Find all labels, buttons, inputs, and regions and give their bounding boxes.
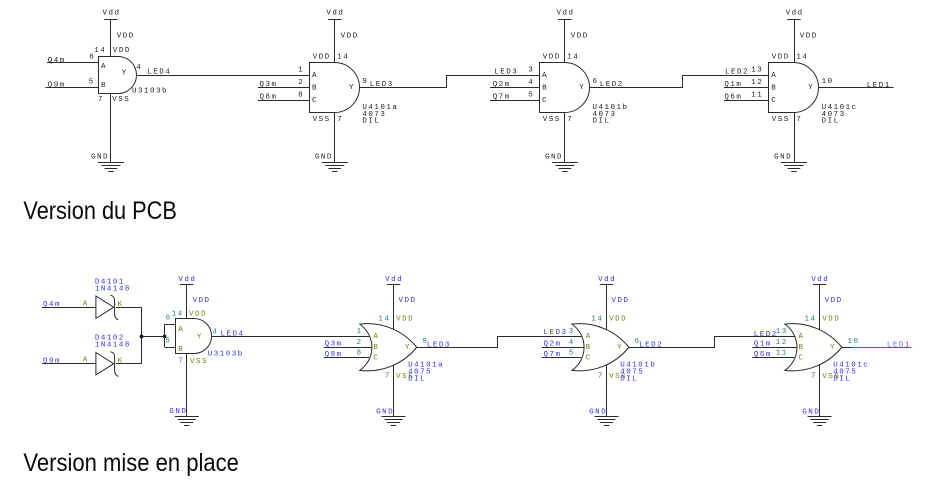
- svg-text:A: A: [373, 333, 379, 341]
- svg-text:Q8m: Q8m: [260, 94, 278, 102]
- svg-text:A: A: [83, 300, 89, 308]
- svg-text:Version du PCB: Version du PCB: [23, 197, 177, 225]
- svg-text:7: 7: [337, 116, 343, 124]
- AND gate U3103b (top) body: [99, 57, 137, 94]
- svg-text:13: 13: [751, 67, 763, 75]
- svg-text:B: B: [586, 344, 592, 352]
- wire Vdd to U3103b pin 14 / VSS to ground (bottom, vertical): [186, 284, 188, 416]
- svg-text:Q4m: Q4m: [43, 301, 61, 309]
- svg-text:6: 6: [166, 315, 172, 323]
- svg-text:14: 14: [94, 47, 106, 55]
- wire input Q7m to U4101b pin 5 (bottom): [542, 357, 581, 359]
- svg-text:5: 5: [569, 349, 575, 357]
- svg-text:LED2: LED2: [639, 342, 663, 350]
- svg-text:Q2m: Q2m: [544, 340, 562, 348]
- svg-text:Q1m: Q1m: [724, 81, 742, 89]
- svg-text:GND: GND: [802, 408, 820, 416]
- svg-text:8: 8: [357, 349, 363, 357]
- svg-text:C: C: [771, 97, 777, 105]
- svg-text:U3103b: U3103b: [208, 351, 244, 359]
- svg-text:C: C: [799, 354, 805, 362]
- svg-text:Q9m: Q9m: [48, 82, 66, 90]
- diode D4102 symbol: [96, 352, 118, 377]
- svg-text:LED1: LED1: [867, 82, 891, 90]
- wire Vdd to U4101b pin 14 / VSS to ground (bottom, vertical): [606, 284, 608, 416]
- AND gate U4101a (top) body: [310, 63, 360, 113]
- ground symbol of U4101c (bottom): [808, 417, 832, 426]
- svg-text:VSS: VSS: [190, 358, 208, 366]
- svg-text:K: K: [118, 358, 124, 366]
- wire net LED1 (highlighted magenta): [853, 347, 912, 349]
- svg-text:Vdd: Vdd: [598, 276, 616, 284]
- svg-text:14: 14: [337, 54, 349, 62]
- svg-text:VDD: VDD: [189, 311, 207, 319]
- wire input Q4m to D4101 anode: [42, 307, 96, 309]
- svg-text:VDD: VDD: [612, 297, 630, 305]
- ground symbol of U3103b (top): [98, 163, 124, 172]
- svg-text:Y: Y: [808, 84, 814, 92]
- svg-text:2: 2: [357, 339, 363, 347]
- svg-text:LED2: LED2: [754, 331, 778, 339]
- power Vdd symbol of U4101a (top): [326, 9, 344, 19]
- svg-text:10: 10: [848, 338, 860, 346]
- svg-text:Vdd: Vdd: [326, 9, 344, 17]
- svg-text:LED4: LED4: [147, 68, 171, 76]
- svg-text:A: A: [586, 333, 592, 341]
- svg-text:B: B: [178, 346, 184, 354]
- svg-text:U3103b: U3103b: [132, 88, 168, 96]
- svg-text:5: 5: [89, 78, 95, 86]
- svg-text:DIL: DIL: [593, 118, 611, 126]
- wire input Q9m to U3103b pin 5: [46, 87, 99, 89]
- wire junction to U3103b inputs: [142, 336, 165, 338]
- wire tee bar connecting U3103b pins 6 and 5: [164, 324, 166, 347]
- svg-text:1: 1: [357, 328, 363, 336]
- wire input Q3m to U4101a pin 2: [258, 87, 309, 89]
- ground symbol of U4101a (top): [322, 163, 348, 172]
- ground symbol of U4101a (bottom): [382, 417, 406, 426]
- svg-text:Q6m: Q6m: [724, 94, 742, 102]
- svg-text:Q1m: Q1m: [754, 340, 772, 348]
- svg-text:2: 2: [298, 79, 304, 87]
- svg-text:LED1: LED1: [887, 341, 911, 349]
- part reference U4101c 4075 DIL (bottom): [833, 361, 869, 383]
- svg-text:VDD: VDD: [822, 316, 840, 324]
- svg-text:4: 4: [212, 328, 218, 336]
- wire U3103b output pin 4 to U4101a pin 1, net LED4 (bottom): [211, 336, 369, 338]
- svg-text:3: 3: [569, 328, 575, 336]
- svg-text:1: 1: [298, 67, 304, 75]
- svg-text:VDD: VDD: [609, 316, 627, 324]
- svg-text:VSS: VSS: [543, 116, 561, 124]
- wire input Q8m to U4101a pin 8 (bottom): [324, 357, 369, 359]
- wire joining diode cathodes (vertical): [141, 307, 143, 364]
- wire stub to U3103b pin 6 (A): [165, 324, 175, 326]
- power Vdd symbol of U3103b (bottom): [178, 276, 196, 285]
- svg-text:Q3m: Q3m: [325, 340, 343, 348]
- svg-text:VSS: VSS: [822, 373, 840, 381]
- svg-text:A: A: [799, 333, 805, 341]
- wire U4101b pin 6 to U4101c pin 13, net LED2 (stepped): [590, 76, 769, 88]
- wire input Q1m to U4101c pin 12 (bottom): [752, 347, 796, 349]
- svg-text:C: C: [542, 97, 548, 105]
- svg-text:LED4: LED4: [221, 331, 245, 339]
- svg-text:A: A: [101, 63, 107, 71]
- svg-text:GND: GND: [376, 408, 394, 416]
- svg-text:VSS: VSS: [609, 373, 627, 381]
- svg-text:Y: Y: [617, 344, 623, 352]
- ground symbol of U4101b (bottom): [595, 417, 619, 426]
- wire input Q7m to U4101b pin 5: [490, 100, 539, 102]
- svg-text:B: B: [373, 344, 379, 352]
- svg-text:Y: Y: [579, 84, 585, 92]
- svg-text:GND: GND: [774, 154, 792, 162]
- svg-text:VDD: VDD: [800, 32, 818, 40]
- svg-text:14: 14: [378, 316, 390, 324]
- OR gate U4101a (bottom) body: [360, 324, 417, 371]
- svg-text:1N4148: 1N4148: [95, 286, 131, 294]
- junction dot at diode cathode bus: [140, 335, 144, 339]
- svg-text:7: 7: [178, 357, 184, 365]
- svg-text:B: B: [101, 82, 107, 90]
- svg-text:7: 7: [98, 96, 104, 104]
- svg-text:B: B: [542, 85, 548, 93]
- OR gate U4101b (bottom) body: [572, 324, 629, 371]
- svg-text:VDD: VDD: [193, 297, 211, 305]
- svg-text:6: 6: [89, 54, 95, 62]
- part reference U4101b 4075 DIL (bottom): [620, 361, 656, 383]
- wire U4101a pin 9 to U4101b pin 3, net LED3 (bottom, stepped): [417, 337, 582, 348]
- svg-text:7: 7: [385, 373, 391, 381]
- svg-text:8: 8: [298, 92, 304, 100]
- svg-text:7: 7: [598, 373, 604, 381]
- wire input Q2m to U4101b pin 4: [490, 87, 539, 89]
- svg-text:GND: GND: [545, 154, 563, 162]
- svg-text:4: 4: [569, 339, 575, 347]
- power Vdd symbol of U4101b (top): [557, 9, 575, 19]
- svg-text:4: 4: [528, 79, 534, 87]
- power Vdd symbol of U4101c (top): [786, 9, 804, 19]
- wire D4102 cathode to junction: [116, 363, 142, 365]
- wire Vdd to U4101c pin 14 / VSS to ground (vertical): [794, 19, 796, 162]
- svg-text:A: A: [542, 72, 548, 80]
- svg-text:9: 9: [362, 78, 368, 86]
- wire input Q3m to U4101a pin 2 (bottom): [324, 347, 372, 349]
- svg-text:GND: GND: [315, 154, 333, 162]
- svg-text:14: 14: [567, 54, 579, 62]
- power Vdd symbol of U4101c (bottom): [811, 276, 829, 285]
- svg-text:LED3: LED3: [494, 69, 518, 77]
- svg-text:A: A: [83, 357, 89, 365]
- svg-text:Q4m: Q4m: [48, 57, 66, 65]
- svg-text:11: 11: [751, 92, 763, 100]
- ground symbol of U3103b (bottom): [175, 417, 199, 426]
- svg-text:Vdd: Vdd: [811, 276, 829, 284]
- svg-text:11: 11: [776, 349, 788, 357]
- svg-text:GND: GND: [169, 408, 187, 416]
- svg-text:Version mise en place: Version mise en place: [23, 449, 239, 477]
- AND gate U4101b (top) body: [540, 63, 590, 113]
- svg-text:10: 10: [822, 78, 834, 86]
- svg-text:B: B: [771, 85, 777, 93]
- svg-text:7: 7: [811, 373, 817, 381]
- power Vdd symbol of U4101b (bottom): [598, 276, 616, 285]
- AND gate U4101c (top) body: [769, 63, 819, 113]
- wire U4101a pin 9 to U4101b pin 3, net LED3 (stepped): [360, 76, 540, 88]
- svg-text:Q9m: Q9m: [43, 358, 61, 366]
- wire input Q6m to U4101c pin 11: [724, 100, 768, 102]
- svg-text:Y: Y: [830, 344, 836, 352]
- wire U3103b output pin 4 to U4101a pin 1, net LED4: [136, 75, 309, 77]
- junction dot at U3103b input tee: [163, 335, 167, 339]
- svg-text:Q7m: Q7m: [544, 351, 562, 359]
- svg-text:A: A: [312, 72, 318, 80]
- wire Vdd to U4101a pin 14 / VSS to ground (bottom, vertical): [393, 284, 395, 416]
- svg-text:12: 12: [751, 79, 763, 87]
- svg-text:B: B: [312, 85, 318, 93]
- svg-text:LED3: LED3: [427, 342, 451, 350]
- wire Vdd to U4101c pin 14 / VSS to ground (bottom, vertical): [819, 284, 821, 416]
- AND gate U3103b (bottom) body: [176, 319, 212, 354]
- svg-text:Vdd: Vdd: [103, 9, 121, 17]
- ground symbol of U4101c (top): [781, 163, 807, 172]
- wire input Q2m to U4101b pin 4 (bottom): [542, 347, 584, 349]
- svg-text:VDD: VDD: [341, 32, 359, 40]
- part reference U4101a 4073 DIL (top): [362, 104, 398, 126]
- svg-text:Y: Y: [197, 334, 203, 342]
- svg-text:4: 4: [136, 64, 142, 72]
- wire D4101 cathode to junction: [116, 307, 142, 309]
- wire input Q6m to U4101c pin 11 (bottom): [752, 357, 794, 359]
- svg-text:VSS: VSS: [112, 96, 130, 104]
- wire U4101b pin 6 to U4101c pin 13, net LED2 (bottom, stepped): [629, 337, 795, 348]
- svg-text:LED2: LED2: [725, 69, 749, 77]
- svg-text:VDD: VDD: [543, 54, 561, 62]
- svg-text:7: 7: [567, 116, 573, 124]
- wire U4101c pin 10 output stub (black): [842, 347, 853, 349]
- svg-text:VDD: VDD: [313, 54, 331, 62]
- svg-text:12: 12: [776, 339, 788, 347]
- svg-text:C: C: [586, 354, 592, 362]
- power Vdd symbol of U3103b (top): [103, 9, 121, 19]
- svg-text:DIL: DIL: [362, 118, 380, 126]
- svg-text:VSS: VSS: [772, 116, 790, 124]
- svg-text:Q7m: Q7m: [493, 94, 511, 102]
- svg-text:A: A: [178, 326, 184, 334]
- svg-text:A: A: [771, 72, 777, 80]
- svg-text:14: 14: [591, 316, 603, 324]
- svg-text:14: 14: [172, 311, 184, 319]
- svg-text:Y: Y: [405, 344, 411, 352]
- svg-text:14: 14: [805, 316, 817, 324]
- svg-text:Vdd: Vdd: [557, 9, 575, 17]
- svg-text:Vdd: Vdd: [178, 276, 196, 284]
- power Vdd symbol of U4101a (bottom): [385, 276, 403, 285]
- part reference U4101b 4073 DIL (top): [593, 104, 629, 126]
- wire input Q9m to D4102 anode: [42, 363, 96, 365]
- wire U4101c pin 10 output, net LED1: [818, 87, 893, 89]
- svg-text:C: C: [312, 97, 318, 105]
- svg-text:VDD: VDD: [396, 316, 414, 324]
- svg-text:B: B: [799, 344, 805, 352]
- svg-text:5: 5: [528, 92, 534, 100]
- wire input Q8m to U4101a pin 8: [258, 100, 309, 102]
- OR gate U4101c (bottom) body: [785, 324, 842, 371]
- wire Vdd to U4101b pin 14 / VSS to ground (vertical): [564, 19, 566, 162]
- svg-text:VDD: VDD: [825, 297, 843, 305]
- wire stub to U3103b pin 5 (B): [165, 347, 175, 349]
- wire Vdd to U4101a pin 14 / VSS to ground (vertical): [334, 19, 336, 162]
- svg-text:Q6m: Q6m: [754, 351, 772, 359]
- svg-text:5: 5: [165, 338, 171, 346]
- svg-text:VSS: VSS: [396, 373, 414, 381]
- svg-text:Y: Y: [349, 84, 355, 92]
- svg-text:C: C: [373, 354, 379, 362]
- svg-text:VDD: VDD: [571, 32, 589, 40]
- svg-text:VDD: VDD: [113, 47, 131, 55]
- svg-text:VDD: VDD: [117, 32, 135, 40]
- svg-text:GND: GND: [589, 408, 607, 416]
- svg-text:Q8m: Q8m: [325, 351, 343, 359]
- svg-text:VSS: VSS: [313, 116, 331, 124]
- svg-text:14: 14: [796, 54, 808, 62]
- ground symbol of U4101b (top): [552, 163, 578, 172]
- svg-text:VDD: VDD: [399, 297, 417, 305]
- svg-text:1N4148: 1N4148: [95, 342, 131, 350]
- wire Vdd to U3103b pin 14 / VSS to ground (vertical): [110, 19, 112, 162]
- svg-text:7: 7: [796, 116, 802, 124]
- wire input Q4m to U3103b pin 6: [47, 62, 98, 64]
- svg-text:3: 3: [528, 67, 534, 75]
- svg-text:GND: GND: [91, 154, 109, 162]
- svg-text:DIL: DIL: [822, 118, 840, 126]
- part reference U4101c 4073 DIL (top): [822, 104, 858, 126]
- svg-text:Q3m: Q3m: [260, 81, 278, 89]
- part reference U4101a 4075 DIL (bottom): [408, 361, 444, 383]
- svg-text:Y: Y: [122, 69, 128, 77]
- svg-text:Vdd: Vdd: [786, 9, 804, 17]
- svg-text:VDD: VDD: [772, 54, 790, 62]
- svg-text:LED3: LED3: [544, 329, 568, 337]
- svg-text:Q2m: Q2m: [493, 81, 511, 89]
- wire input Q1m to U4101c pin 12: [724, 87, 768, 89]
- diode D4101 symbol: [96, 295, 118, 320]
- svg-text:Vdd: Vdd: [385, 276, 403, 284]
- svg-text:6: 6: [593, 78, 599, 86]
